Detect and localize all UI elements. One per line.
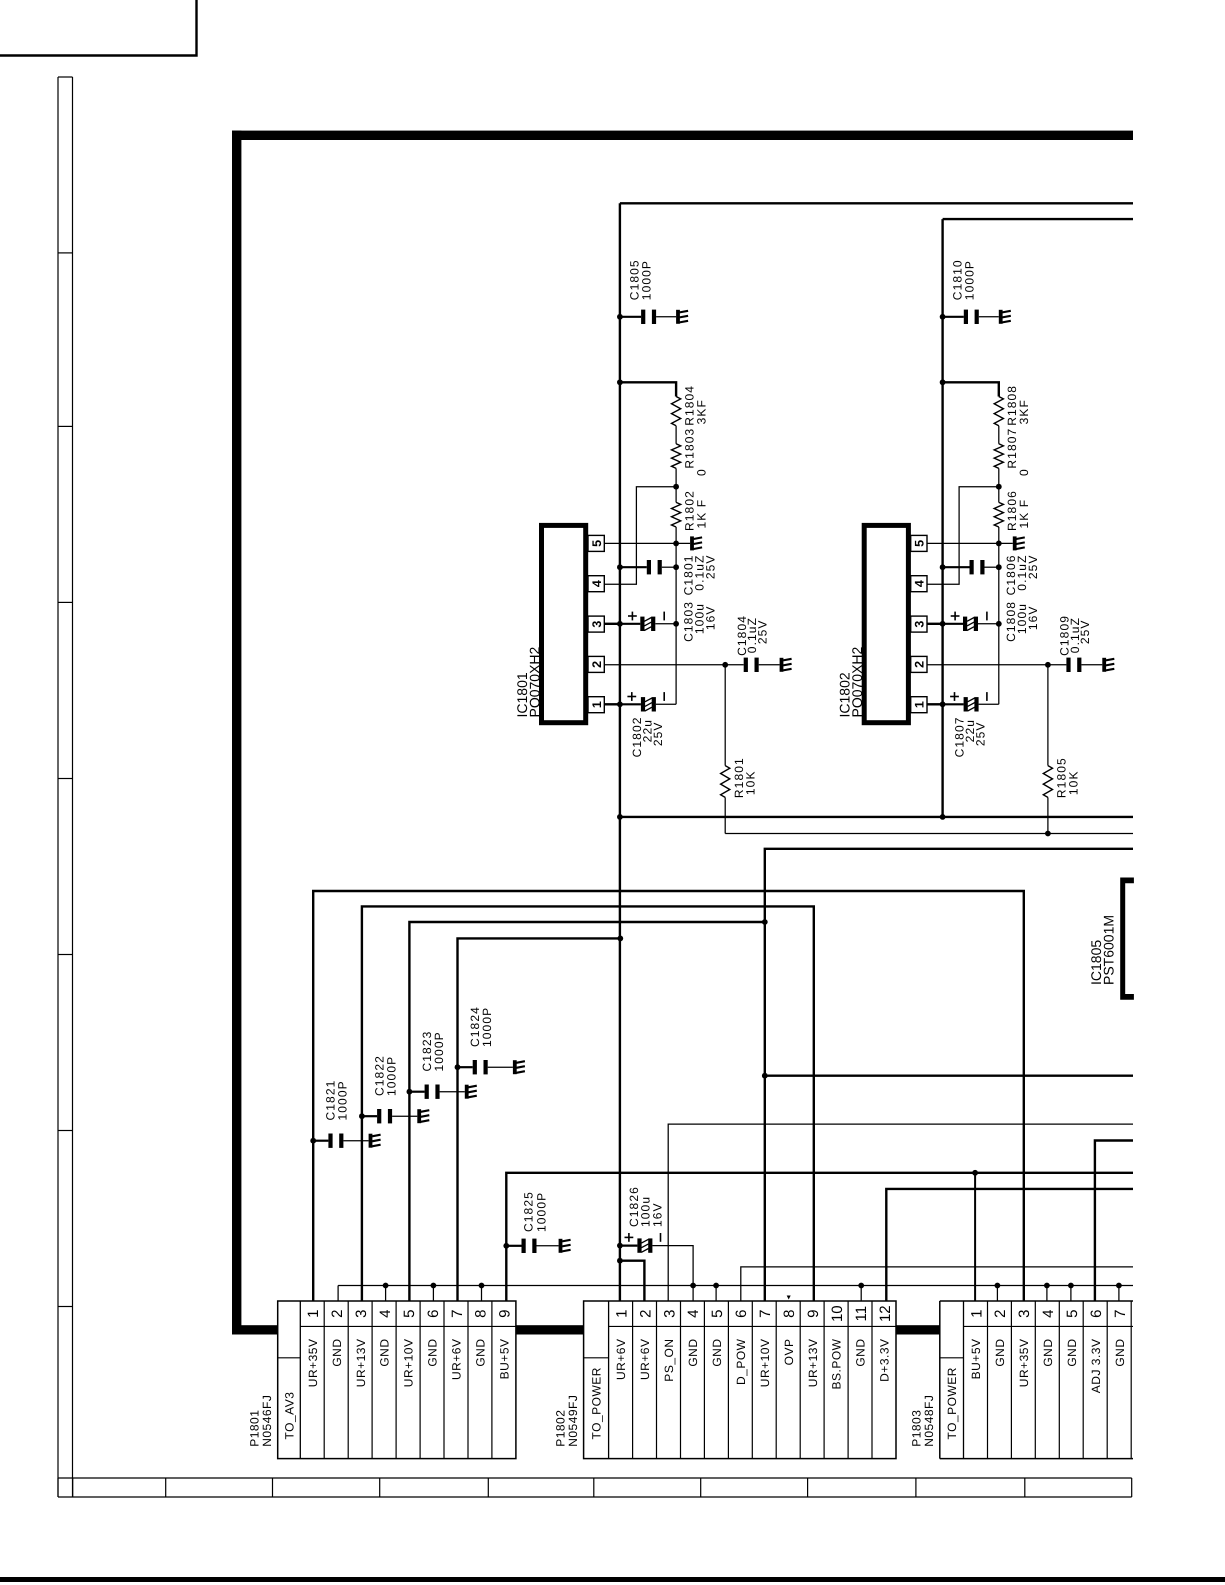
wire IC1801 pin 3	[604, 623, 620, 625]
svg-text:1000P: 1000P	[962, 260, 976, 300]
svg-text:GND: GND	[330, 1339, 344, 1367]
svg-text:1: 1	[913, 701, 927, 708]
svg-text:UR+6V: UR+6V	[450, 1339, 464, 1381]
svg-text:N0546FJ: N0546FJ	[260, 1395, 274, 1447]
svg-text:4: 4	[590, 580, 604, 587]
capacitor C1824 1000P	[458, 1066, 473, 1068]
wire riser P1801 C1823 tap	[407, 1089, 413, 1095]
wire IC1801 pin 4 feedback	[604, 487, 676, 585]
wire stub P1801 GND pin	[481, 1286, 483, 1302]
capacitor C1825 1000P	[503, 1243, 509, 1249]
resistor R1802 1K F	[672, 502, 681, 527]
wire net GND bus line	[338, 1285, 1133, 1287]
svg-text:GND: GND	[378, 1339, 392, 1367]
svg-text:R1803: R1803	[683, 428, 697, 469]
wire IC1802 pin 5 / ground	[927, 542, 1013, 544]
wire net line I (UR+10V tap)	[765, 1074, 1133, 1076]
wire net line D (UR+35V) P1801-1 to P1803-3	[313, 891, 1024, 1301]
wire stub P1803 GND pin	[1070, 1286, 1072, 1302]
svg-text:1000P: 1000P	[640, 260, 654, 300]
svg-text:BS.POW: BS.POW	[830, 1338, 844, 1389]
svg-text:3KF: 3KF	[1017, 399, 1031, 424]
wire IC1802 resistor branch	[940, 379, 946, 385]
wire riser P1801 C1824 tap	[455, 1064, 461, 1070]
svg-text:1K F: 1K F	[695, 499, 709, 529]
svg-text:1000P: 1000P	[336, 1080, 350, 1120]
svg-text:R1807: R1807	[1005, 428, 1019, 469]
svg-text:9: 9	[805, 1310, 822, 1318]
svg-text:UR+13V: UR+13V	[354, 1339, 368, 1388]
svg-text:16V: 16V	[1026, 606, 1040, 631]
capacitor C1804 0.1uZ 25V	[725, 664, 744, 666]
capacitor C1823 1000P	[409, 1091, 424, 1093]
wire riser P1801 C1822 tap	[359, 1113, 365, 1119]
resistor R1804 3KF	[672, 397, 681, 426]
svg-text:2: 2	[590, 661, 604, 668]
svg-text:GND: GND	[854, 1339, 868, 1367]
capacitor C1810 1000P	[940, 314, 946, 320]
svg-text:5: 5	[401, 1310, 418, 1318]
svg-text:TO_AV3: TO_AV3	[283, 1392, 297, 1440]
no-connect mark P1802-8 OVP	[787, 1296, 791, 1300]
svg-text:1: 1	[590, 701, 604, 708]
wire IC1801 pin 2 output	[604, 664, 725, 666]
schematic frame border	[232, 131, 241, 1335]
svg-text:12: 12	[877, 1305, 894, 1322]
wire stub P1803 GND pin	[1118, 1286, 1120, 1302]
svg-text:UR+6V: UR+6V	[614, 1339, 628, 1381]
left fold ruler	[57, 77, 59, 1497]
svg-text:GND: GND	[710, 1339, 724, 1367]
svg-text:ADJ 3.3V: ADJ 3.3V	[1089, 1339, 1103, 1394]
svg-text:25V: 25V	[704, 555, 718, 580]
svg-text:11: 11	[853, 1306, 870, 1322]
svg-text:D_POW: D_POW	[734, 1338, 748, 1385]
svg-text:GND: GND	[426, 1339, 440, 1367]
svg-text:6: 6	[425, 1310, 442, 1318]
wire IC1802 pin 3	[927, 623, 943, 625]
svg-text:TO_POWER: TO_POWER	[590, 1367, 604, 1439]
resistor R1803 0	[672, 444, 681, 469]
svg-text:GND: GND	[1041, 1339, 1055, 1367]
svg-text:6: 6	[1088, 1310, 1105, 1318]
svg-text:UR+13V: UR+13V	[806, 1339, 820, 1388]
resistor R1808 3KF	[994, 397, 1003, 426]
wire IC1802 pin 1 input	[927, 703, 943, 705]
svg-text:25V: 25V	[974, 722, 988, 747]
svg-text:0: 0	[695, 468, 709, 476]
wire net line C (UR+10V)	[765, 849, 1133, 1301]
svg-text:3: 3	[353, 1310, 370, 1318]
wire IC1801 resistor branch	[617, 379, 623, 385]
wire top feed IC1802	[943, 218, 1133, 220]
resistor R1801 10K	[724, 665, 726, 766]
svg-text:BU+5V: BU+5V	[969, 1339, 983, 1380]
svg-text:GND: GND	[1113, 1339, 1127, 1367]
svg-text:4: 4	[913, 580, 927, 587]
svg-text:3KF: 3KF	[695, 399, 709, 424]
capacitor C1805 1000P	[617, 314, 623, 320]
svg-text:OVP: OVP	[782, 1339, 796, 1366]
wire top feed IC1801	[620, 202, 1133, 204]
svg-text:PS_ON: PS_ON	[662, 1339, 676, 1382]
svg-text:7: 7	[1112, 1310, 1129, 1318]
svg-text:PST6001M: PST6001M	[1101, 915, 1117, 985]
controller IC1805 PST6001M (edge cut)	[1120, 878, 1134, 1000]
svg-text:1000P: 1000P	[384, 1056, 398, 1096]
svg-text:UR+10V: UR+10V	[402, 1339, 416, 1388]
wire C1826 negative to GND net	[652, 1246, 693, 1301]
page bottom edge	[0, 1577, 1225, 1582]
capacitor C1806 0.1uZ 25V	[940, 564, 946, 570]
svg-text:TO_POWER: TO_POWER	[945, 1367, 959, 1439]
svg-text:PQ070XH2: PQ070XH2	[527, 646, 543, 717]
svg-text:3: 3	[661, 1310, 678, 1318]
svg-text:UR+35V: UR+35V	[1017, 1339, 1031, 1388]
title block corner (top-left)	[0, 0, 197, 56]
wire net BU+5V tap to P1803-1	[974, 1173, 976, 1301]
svg-text:8: 8	[781, 1310, 798, 1318]
regulator IC1802 PQ070XH2	[864, 525, 908, 722]
svg-text:1K F: 1K F	[1017, 499, 1031, 529]
node vertical IC1801	[675, 543, 677, 704]
capacitor C1821 1000P	[313, 1140, 328, 1142]
capacitor C1802 22u 25V	[620, 703, 641, 705]
capacitor C1808 100u 16V	[943, 623, 963, 625]
svg-text:16V: 16V	[651, 1202, 665, 1227]
wire IC1802 pin 2 output	[927, 664, 1048, 666]
wire stub P1801 GND pin	[385, 1286, 387, 1302]
svg-text:PQ070XH2: PQ070XH2	[849, 646, 865, 717]
svg-text:2: 2	[637, 1310, 654, 1318]
svg-text:UR+10V: UR+10V	[758, 1339, 772, 1388]
resistor R1806 1K F	[994, 502, 1003, 527]
wire IC1801 pin 1 input	[604, 703, 620, 705]
node IC1801 pin4 junction	[673, 484, 679, 490]
capacitor C1801 0.1uZ 25V	[617, 564, 623, 570]
connector P1803 N0548FJ TO_POWER	[940, 1301, 1133, 1459]
svg-text:GND: GND	[474, 1339, 488, 1367]
wire stub P1801-2 GND	[337, 1286, 339, 1302]
svg-text:25V: 25V	[1078, 620, 1092, 645]
capacitor C1822 1000P	[362, 1115, 377, 1117]
wire net line G (UR+6V) P1801-7 to bus	[458, 938, 621, 1301]
svg-text:3: 3	[913, 621, 927, 628]
wire net line K (ADJ 3.3V) P1803-6	[1095, 1141, 1133, 1302]
svg-text:7: 7	[757, 1310, 774, 1318]
wire net line H (BU+5V) P1801-9	[506, 1173, 1133, 1301]
svg-text:7: 7	[449, 1310, 466, 1318]
svg-text:2: 2	[992, 1310, 1009, 1318]
svg-text:25V: 25V	[1026, 555, 1040, 580]
svg-text:N0549FJ: N0549FJ	[566, 1395, 580, 1447]
regulator IC1801 PQ070XH2	[542, 525, 586, 722]
wire stub P1803 GND pin	[1046, 1286, 1048, 1302]
svg-text:C1825: C1825	[522, 1191, 536, 1232]
svg-text:GND: GND	[993, 1339, 1007, 1367]
svg-text:UR+6V: UR+6V	[638, 1339, 652, 1381]
svg-text:BU+5V: BU+5V	[498, 1339, 512, 1380]
svg-text:1: 1	[968, 1310, 985, 1318]
wire net PS_ON from P1802-3	[668, 1124, 1133, 1301]
svg-text:5: 5	[709, 1310, 726, 1318]
wire net line F (UR+10V) P1801-5 to riser	[409, 922, 764, 1301]
svg-text:6: 6	[733, 1310, 750, 1318]
svg-text:GND: GND	[686, 1339, 700, 1367]
svg-text:5: 5	[590, 540, 604, 547]
wire stub P1801 GND pin	[432, 1286, 434, 1302]
capacitor C1826 100u 16V	[617, 1243, 623, 1249]
wire IC1801 pin 5 / ground	[604, 542, 690, 544]
svg-text:16V: 16V	[704, 606, 718, 631]
svg-text:25V: 25V	[755, 620, 769, 645]
svg-text:10K: 10K	[744, 770, 758, 795]
svg-text:4: 4	[1040, 1310, 1057, 1318]
wire riser P1801 C1821 tap	[310, 1138, 316, 1144]
wire net line J (D+3.3V) P1802-12	[886, 1189, 1133, 1301]
node vertical IC1802	[998, 543, 1000, 704]
wire net D_POW from P1802-6	[741, 1267, 1133, 1301]
connector P1801 N0546FJ TO_AV3	[278, 1301, 516, 1459]
svg-text:1: 1	[613, 1310, 630, 1318]
capacitor C1803 100u 16V	[620, 623, 640, 625]
svg-text:3: 3	[590, 621, 604, 628]
svg-text:3: 3	[1016, 1310, 1033, 1318]
svg-text:2: 2	[329, 1310, 346, 1318]
svg-text:1000P: 1000P	[480, 1007, 494, 1047]
svg-text:GND: GND	[1065, 1339, 1079, 1367]
node IC1802 pin4 junction	[996, 484, 1002, 490]
svg-text:1000P: 1000P	[535, 1192, 549, 1232]
svg-text:5: 5	[913, 540, 927, 547]
svg-text:8: 8	[473, 1310, 490, 1318]
svg-text:0: 0	[1017, 468, 1031, 476]
svg-text:N0548FJ: N0548FJ	[922, 1395, 936, 1447]
capacitor C1809 0.1uZ 25V	[1048, 664, 1067, 666]
wire net R1801/R1805 ground sense line B	[725, 833, 1133, 835]
wire net line E (UR+13V) P1801-3 to P1802-9	[362, 906, 814, 1301]
connector P1802 N0549FJ TO_POWER	[584, 1301, 896, 1459]
wire stub P1802-11 GND	[860, 1286, 862, 1302]
svg-text:25V: 25V	[651, 722, 665, 747]
svg-text:4: 4	[685, 1310, 702, 1318]
wire IC1801 VIN bus	[619, 203, 621, 1301]
capacitor C1807 22u 25V	[943, 703, 964, 705]
svg-text:5: 5	[1064, 1310, 1081, 1318]
wire stub P1802-5 GND	[715, 1286, 717, 1302]
resistor R1807 0	[994, 444, 1003, 469]
wire IC1802 pin 4 feedback	[927, 487, 999, 585]
svg-text:10K: 10K	[1066, 770, 1080, 795]
svg-text:D+3.3V: D+3.3V	[878, 1339, 892, 1382]
wire stub P1803 GND pin	[996, 1286, 998, 1302]
resistor R1805 10K	[1047, 665, 1049, 766]
wire bus to P1802-2 jog	[620, 1261, 645, 1301]
svg-text:1: 1	[305, 1310, 322, 1318]
svg-text:UR+35V: UR+35V	[306, 1339, 320, 1388]
svg-text:10: 10	[829, 1305, 846, 1322]
svg-text:1000P: 1000P	[432, 1031, 446, 1071]
svg-text:4: 4	[377, 1310, 394, 1318]
svg-text:2: 2	[913, 661, 927, 668]
wire IC1802 VIN bus	[941, 219, 943, 817]
wire net UR+6V line A	[620, 816, 1133, 818]
svg-text:9: 9	[497, 1310, 514, 1318]
bottom scale ruler	[58, 1477, 1132, 1479]
